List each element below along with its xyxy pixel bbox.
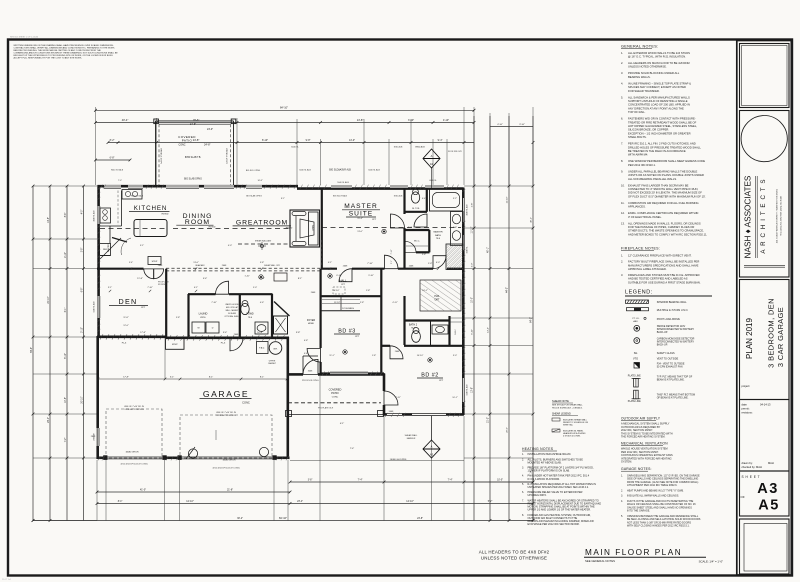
svg-text:3.: 3.: [621, 71, 623, 75]
plb opt hatched area: [420, 280, 461, 311]
svg-text:WITH SELF CLOSING HINGES PER 2: WITH SELF CLOSING HINGES PER 2012 IRC R3…: [627, 525, 690, 528]
svg-text:40′-4″: 40′-4″: [122, 118, 129, 122]
garage bottom wall with door openings: [97, 456, 106, 459]
svg-text:UNLESS NOTED OTHERWISE: UNLESS NOTED OTHERWISE: [481, 556, 547, 561]
svg-text:5040 SL ALB: 5040 SL ALB: [466, 384, 469, 396]
garage bottom extension line right: [290, 460, 464, 462]
svg-text:6′-0″: 6′-0″: [436, 262, 440, 264]
garage slope arrows: [215, 430, 217, 440]
svg-text:84′-10″: 84′-10″: [280, 106, 288, 110]
exterior wall garage left: [96, 336, 99, 459]
svg-text:11′-8″: 11′-8″: [137, 278, 143, 280]
svg-text:20′-10″: 20′-10″: [48, 296, 50, 303]
svg-text:TILE: TILE: [436, 238, 441, 240]
svg-text:HDWD: HDWD: [286, 227, 293, 229]
svg-text:CONC: CONC: [242, 400, 250, 404]
svg-text:revisions:: revisions:: [742, 411, 753, 415]
entertainment center greatroom-master: [290, 210, 320, 247]
svg-text:WASTE HOUSE: WASTE HOUSE: [225, 303, 239, 306]
svg-text:A: A: [431, 154, 433, 158]
bd2 bottom wall: [383, 413, 464, 416]
svg-text:7′-4″: 7′-4″: [350, 448, 355, 450]
svg-text:34 IN ABV: 34 IN ABV: [228, 312, 237, 315]
svg-text:24′-8″: 24′-8″: [417, 518, 423, 520]
svg-text:STEP: STEP: [172, 344, 178, 346]
svg-text:2868 DR: 2868 DR: [94, 433, 96, 441]
svg-text:7′-10″: 7′-10″: [367, 263, 373, 265]
svg-text:CONC: CONC: [332, 396, 339, 398]
hall bath2 wall: [403, 296, 405, 345]
svg-text:1′-0″: 1′-0″: [428, 263, 433, 265]
garage vertical extension lines: [164, 338, 166, 379]
linen closet walls: [448, 316, 450, 346]
svg-text:2′-8″: 2′-8″: [453, 227, 457, 229]
greatroom media dashes: [100, 228, 166, 230]
bd2 bottom door gap: [387, 413, 402, 416]
svg-text:ALL NON-BEARING PARALLEL WALLS: ALL NON-BEARING PARALLEL WALLS.: [628, 177, 677, 181]
bd2 left wall: [383, 374, 386, 392]
svg-text:4X12 4X12 DF#2 (16′-8″ LONG): 4X12 4X12 DF#2 (16′-8″ LONG): [121, 464, 148, 466]
svg-text:5040 SL ALB: 5040 SL ALB: [368, 169, 380, 172]
svg-text:11′-1″: 11′-1″: [329, 355, 334, 357]
svg-text:2x6 DF STUD ALB: 2x6 DF STUD ALB: [226, 147, 229, 163]
svg-text:MULTIPLE 2x STUDS U.N.O.: MULTIPLE 2x STUDS U.N.O.: [657, 309, 689, 312]
svg-text:6′-8″: 6′-8″: [110, 156, 115, 159]
legend bearing wall symbol: [626, 300, 649, 303]
svg-text:LINE OF 7′x16′ DR. IN: LINE OF 7′x16′ DR. IN: [124, 406, 145, 408]
svg-text:INSTALLATION PER ASHRAE 90A-80: INSTALLATION PER ASHRAE 90A-80.: [528, 453, 572, 456]
svg-text:SILICON BRONZE, OR COPPER.: SILICON BRONZE, OR COPPER.: [628, 128, 669, 132]
legend smoke detector: [634, 325, 640, 331]
title block logo box: [740, 111, 790, 278]
windows right wall: [462, 198, 465, 222]
svg-text:PLATE LINE: PLATE LINE: [628, 374, 641, 377]
exterior wall left: [97, 185, 100, 338]
svg-text:IN-LINE FRAMING – SINGLE TOP P: IN-LINE FRAMING – SINGLE TOP PLATE STRAP…: [628, 81, 691, 85]
svg-text:VTO: VTO: [633, 357, 638, 360]
svg-text:14′-0″: 14′-0″: [349, 139, 355, 142]
master shower tile hatch: [446, 244, 463, 270]
svg-text:drawn by:: drawn by:: [742, 461, 754, 465]
legend fan flag: [634, 363, 640, 369]
svg-text:PLATE LINE: PLATE LINE: [628, 400, 641, 403]
svg-text:3′-10″: 3′-10″: [519, 124, 525, 126]
svg-text:MAIN FLOOR PLAN: MAIN FLOOR PLAN: [585, 548, 682, 557]
svg-text:04-14-13: 04-14-13: [760, 403, 771, 407]
svg-text:SYSTEM.: SYSTEM.: [621, 461, 632, 464]
wall hatch marks garage top wall: [168, 335, 171, 340]
svg-text:MOUNTED 48″ ABOVE SLAB.: MOUNTED 48″ ABOVE SLAB.: [528, 461, 562, 464]
svg-text:4 STUDS 4 DOWN.: 4 STUDS 4 DOWN.: [563, 436, 581, 438]
svg-text:8.: 8.: [621, 159, 623, 163]
svg-text:W.H.: W.H.: [273, 348, 278, 350]
svg-text:4′-4″: 4′-4″: [304, 353, 308, 355]
bd3 closet: [321, 295, 381, 297]
svg-text:12′-0″: 12′-0″: [123, 325, 129, 327]
svg-text:4′-0″: 4′-0″: [81, 210, 83, 215]
svg-text:A3: A3: [430, 162, 434, 166]
svg-text:5′-4″: 5′-4″: [129, 262, 133, 264]
double rule between names: [755, 176, 757, 258]
shear dash above foyer wall: [320, 240, 322, 267]
svg-text:9′-8″: 9′-8″: [306, 139, 311, 142]
svg-text:SHEET A5.: SHEET A5.: [563, 424, 574, 427]
svg-text:ALL HEADERS TO BE 4X8 DF#2: ALL HEADERS TO BE 4X8 DF#2: [479, 550, 550, 555]
svg-text:4′-6″: 4′-6″: [260, 302, 264, 304]
svg-text:6′-8″: 6′-8″: [304, 340, 308, 342]
wall den-garage: [97, 335, 166, 338]
bottom wall hatch ticks bd3 bd2: [322, 371, 325, 375]
svg-text:23′-4″: 23′-4″: [297, 501, 303, 503]
svg-text:7′-4″: 7′-4″: [358, 478, 363, 481]
svg-text:UPC REG 608.5.: UPC REG 608.5.: [528, 494, 547, 497]
svg-text:8′-2″: 8′-2″: [110, 139, 115, 142]
svg-text:10′-8″: 10′-8″: [65, 397, 67, 403]
svg-text:11′-10″: 11′-10″: [472, 226, 474, 233]
svg-text:10′-10″: 10′-10″: [417, 355, 424, 357]
svg-text:HEATING NOTES: HEATING NOTES: [522, 447, 554, 451]
svg-text:A3: A3: [430, 453, 434, 457]
right dimension chain lines: [473, 116, 475, 521]
master toilet room: [405, 211, 428, 213]
svg-text:OF FLEX DUCT IS 5″ DIAMETER WI: OF FLEX DUCT IS 5″ DIAMETER WITH MAXIMUM…: [628, 194, 706, 198]
svg-text:FR DRS: FR DRS: [158, 284, 166, 286]
svg-text:F1-6: F1-6: [122, 343, 127, 345]
svg-text:3.: 3.: [522, 466, 524, 469]
svg-text:10′-1″: 10′-1″: [452, 397, 458, 399]
svg-text:FACTORY BUILT FIREPLACE SHALL: FACTORY BUILT FIREPLACE SHALL BE INSTALL…: [628, 260, 699, 264]
svg-text:LEGEND:: LEGEND:: [625, 290, 653, 296]
svg-text:8′-0″: 8′-0″: [408, 227, 412, 229]
exterior wall right: [462, 188, 465, 416]
svg-text:2′-8″: 2′-8″: [360, 302, 364, 304]
svg-text:BEAM ABV: BEAM ABV: [195, 264, 205, 267]
svg-text:MAH: MAH: [768, 461, 774, 465]
svg-text:24′-0″: 24′-0″: [48, 417, 50, 423]
top right short chain: [490, 126, 533, 128]
svg-text:THE FORCED AIR HEATING SYSTEM.: THE FORCED AIR HEATING SYSTEM.: [621, 436, 666, 439]
wall garage top / laundry bottom: [166, 336, 289, 339]
svg-text:APPROVAL LABEL ATTACHED.: APPROVAL LABEL ATTACHED.: [628, 267, 667, 271]
svg-text:SUITE: SUITE: [349, 210, 373, 217]
svg-text:SHEAR WALL: SHEAR WALL: [405, 434, 419, 437]
svg-text:INDICATES SHEAR WALL: INDICATES SHEAR WALL: [563, 419, 588, 422]
svg-text:9′-4″: 9′-4″: [438, 139, 443, 142]
svg-text:4040 SL ALB: 4040 SL ALB: [466, 204, 469, 216]
svg-text:HDWD: HDWD: [209, 226, 216, 228]
svg-text:13′-0″: 13′-0″: [193, 262, 199, 264]
svg-text:SHEAR NOTE: SHEAR NOTE: [552, 399, 569, 403]
windows top wall: [104, 185, 121, 188]
svg-text:F.A.U.: F.A.U.: [259, 347, 265, 350]
svg-text:6′-1″: 6′-1″: [194, 287, 198, 289]
svg-text:CONNECTED TO 4″ SMOOTH WALL VE: CONNECTED TO 4″ SMOOTH WALL VENT PIPE IF…: [628, 187, 698, 191]
svg-text:MASTER: MASTER: [433, 231, 443, 234]
svg-text:ONE WINDOW PER BEDROOM SHALL M: ONE WINDOW PER BEDROOM SHALL MEET EGRESS…: [628, 159, 705, 163]
svg-text:8′-4″: 8′-4″: [118, 501, 123, 503]
svg-text:1′-8″: 1′-8″: [366, 290, 371, 292]
svg-text:GREATROOM: GREATROOM: [236, 219, 288, 226]
svg-text:7′-0″: 7′-0″: [118, 180, 122, 182]
powder bath fixtures: [241, 303, 249, 314]
garage symbols: [188, 449, 197, 458]
garage door dashed boxes: [106, 409, 162, 458]
svg-text:ABV.: ABV.: [633, 320, 638, 323]
svg-text:3′-1″: 3′-1″: [170, 376, 175, 378]
garage wall hatch ticks bottom: [98, 456, 101, 460]
svg-text:6′-8″: 6′-8″: [81, 288, 83, 293]
svg-text:10′-1″: 10′-1″: [422, 290, 428, 292]
svg-text:ALL EXTERIOR WOOD WALLS TO BE: ALL EXTERIOR WOOD WALLS TO BE 2x6 STUDS: [628, 51, 690, 55]
svg-text:13′-4″: 13′-4″: [488, 327, 490, 333]
post bottom patio: [286, 411, 292, 417]
svg-text:2.: 2.: [621, 489, 623, 492]
svg-text:FOR SHEAR TRANSFER.: FOR SHEAR TRANSFER.: [628, 89, 660, 93]
mud angled wall: [274, 302, 290, 317]
legend plate line 2: [634, 390, 639, 399]
svg-text:2′-8″: 2′-8″: [472, 203, 474, 208]
svg-text:INSULATE ALL WARM WALLS AND CE: INSULATE ALL WARM WALLS AND CEILINGS.: [627, 495, 679, 498]
svg-text:4′-11″: 4′-11″: [392, 302, 397, 304]
svg-text:3.: 3.: [621, 273, 623, 277]
shear wall dash greatroom: [238, 243, 290, 245]
kitchen counter left column: [109, 226, 111, 243]
svg-text:COMBUSTION AIR REQUIRED FOR AL: COMBUSTION AIR REQUIRED FOR ALL FUEL BUR…: [628, 201, 699, 205]
patio bottom dash lines: [288, 402, 381, 404]
section marker diamond bottom: [423, 440, 440, 458]
right chain ticks more: [473, 227, 476, 230]
svg-text:ANY DIRECTION AT ANY POINT ALO: ANY DIRECTION AT ANY POINT ALONG THE: [628, 106, 684, 110]
svg-text:5.: 5.: [522, 483, 524, 486]
svg-text:A R C H I T E C T S: A R C H I T E C T S: [760, 178, 767, 253]
foyer niche lines: [303, 355, 318, 357]
svg-text:1′-10″: 1′-10″: [244, 276, 249, 278]
svg-text:CPT: CPT: [372, 219, 377, 221]
svg-text:BIG SLAB OPNG: BIG SLAB OPNG: [184, 178, 202, 181]
svg-text:10.: 10.: [621, 183, 625, 187]
svg-text:9.: 9.: [621, 169, 623, 173]
bath2 top wall: [405, 319, 450, 321]
svg-text:date:: date:: [742, 403, 748, 407]
svg-text:IF ON A WOOD PLATFORM.: IF ON A WOOD PLATFORM.: [528, 478, 561, 481]
svg-text:7′-2″: 7′-2″: [65, 438, 67, 443]
svg-text:SUPPORT LINTHOLD OF RESISTING: SUPPORT LINTHOLD OF RESISTING A SINGLE: [628, 99, 688, 103]
svg-text:4′-10″: 4′-10″: [443, 119, 449, 122]
open beam double dash corridor: [166, 267, 320, 269]
svg-text:SHELF: SHELF: [455, 328, 457, 335]
svg-text:JOISTS OR AS NOTED ON PLANS. D: JOISTS OR AS NOTED ON PLANS. DOUBLE JOIS…: [628, 173, 704, 177]
svg-text:F1-6: F1-6: [221, 343, 226, 345]
svg-text:PROVIDE SOLID BLOCKING UNDER A: PROVIDE SOLID BLOCKING UNDER ALL: [628, 71, 680, 75]
svg-text:M. TOIL: M. TOIL: [412, 208, 420, 210]
garage step box: [166, 338, 185, 350]
bd3 bottom wall: [320, 372, 384, 374]
svg-text:SAFETY GLASS: SAFETY GLASS: [657, 352, 675, 355]
wall hatch marks den-garage wall: [100, 334, 103, 339]
svg-text:SHEAR WALL OPR: SHEAR WALL OPR: [264, 264, 281, 267]
svg-text:1.: 1.: [621, 254, 623, 258]
svg-text:SEE SHT A5 FOR SHEAR WALL: SEE SHT A5 FOR SHEAR WALL: [552, 404, 584, 407]
svg-text:3′-1″: 3′-1″: [108, 287, 112, 289]
svg-text:13.: 13.: [621, 221, 625, 225]
svg-text:INTERIOR BEARING WALL: INTERIOR BEARING WALL: [657, 301, 688, 304]
svg-text:10′ BI-PASS: 10′ BI-PASS: [342, 307, 354, 310]
svg-text:FIREPLACES AND STOVES MUST BE: FIREPLACES AND STOVES MUST BE D.O.E. APP…: [628, 273, 700, 277]
svg-text:3 BEDROOM, DEN: 3 BEDROOM, DEN: [767, 298, 776, 368]
svg-text:4′-0″: 4′-0″: [228, 245, 232, 247]
svg-text:13′-8″: 13′-8″: [472, 387, 474, 393]
svg-text:16080 OH DR: 16080 OH DR: [125, 452, 139, 454]
svg-text:5040 SL ALB: 5040 SL ALB: [299, 169, 311, 172]
svg-text:30′-2″: 30′-2″: [237, 518, 243, 520]
svg-text:BE TREATED IN THE FIELD IN ACC: BE TREATED IN THE FIELD IN ACCORDANCE: [628, 149, 686, 153]
svg-text:8050 SLAB T.B.: 8050 SLAB T.B.: [185, 156, 202, 159]
garage left wall opening: [96, 428, 99, 446]
svg-text:16′-8″: 16′-8″: [257, 180, 262, 182]
svg-text:BIG SLD&#39;R ALB: BIG SLD&#39;R ALB: [329, 169, 351, 172]
svg-text:14′-10″: 14′-10″: [406, 500, 414, 503]
svg-text:3′-0″: 3′-0″: [453, 355, 457, 357]
bottom dimension chain lines: [97, 491, 290, 493]
svg-text:4.: 4.: [522, 475, 524, 478]
svg-text:3 CAR GARAGE: 3 CAR GARAGE: [776, 307, 785, 367]
svg-text:BD #2: BD #2: [421, 372, 438, 378]
bath2 fixtures: [412, 331, 421, 343]
svg-text:16′-8″: 16′-8″: [259, 278, 265, 280]
svg-text:HOLDS SCHEDULE + DETAILS.: HOLDS SCHEDULE + DETAILS.: [552, 406, 583, 409]
window bd2 bottom: [412, 413, 446, 416]
section marker diamond top: [423, 149, 440, 168]
svg-text:UPRIGHT POSITION: UPRIGHT POSITION: [124, 409, 144, 411]
svg-text:7.: 7.: [522, 499, 524, 502]
svg-text:HOT DIPPED GALVANIZED STEEL, S: HOT DIPPED GALVANIZED STEEL, STAINLESS S…: [628, 124, 697, 128]
svg-text:KITCHEN: KITCHEN: [134, 205, 167, 212]
svg-text:40′-1″: 40′-1″: [531, 217, 533, 223]
svg-text:17′-8″: 17′-8″: [123, 376, 129, 378]
exterior wall hatch ticks top: [100, 185, 103, 189]
svg-text:PER 2012 IRC R310.1.: PER 2012 IRC R310.1.: [628, 163, 656, 167]
svg-text:A5: A5: [758, 498, 780, 514]
svg-text:8′-1″: 8′-1″: [260, 376, 265, 378]
svg-text:1 LAYER IF PLATFORM IS ON SLAB: 1 LAYER IF PLATFORM IS ON SLAB.: [528, 470, 571, 473]
svg-text:CPT: CPT: [355, 336, 360, 338]
svg-text:8′-1″: 8′-1″: [209, 376, 214, 378]
svg-text:3′-0″: 3′-0″: [472, 263, 474, 268]
mud closet: [274, 316, 288, 334]
svg-text:4′-1″: 4′-1″: [328, 262, 332, 264]
svg-text:BACK-UP.: BACK-UP.: [657, 331, 668, 334]
svg-text:9′-10″: 9′-10″: [368, 275, 374, 277]
laundry fixtures: [192, 322, 205, 333]
svg-text:4.: 4.: [621, 500, 623, 503]
svg-text:8′-4″: 8′-4″: [65, 213, 67, 218]
svg-text:7′-10″: 7′-10″: [211, 302, 217, 304]
svg-text:11′-10″: 11′-10″: [507, 196, 509, 203]
svg-text:4′-10″: 4′-10″: [497, 124, 503, 126]
svg-text:project:: project:: [742, 384, 751, 388]
svg-text:OPEN: OPEN: [313, 225, 315, 231]
step box: [148, 257, 161, 265]
svg-text:BEAM IS AT PLATE LINE.: BEAM IS AT PLATE LINE.: [657, 379, 685, 382]
laundry bath block walls: [188, 293, 216, 295]
svg-text:7.: 7.: [621, 142, 623, 146]
window bd3 bottom: [330, 372, 368, 375]
svg-text:BIG SLAB OPNG: BIG SLAB OPNG: [246, 195, 262, 198]
svg-text:3′-4″: 3′-4″: [223, 332, 228, 334]
svg-text:10′-0″: 10′-0″: [497, 479, 503, 481]
den french doors pair arcs: [144, 269, 154, 279]
svg-text:AND BE TESTED CERTIFIED AND LA: AND BE TESTED CERTIFIED AND LABELED AS: [628, 277, 688, 281]
svg-text:7′-10″: 7′-10″: [391, 249, 393, 254]
svg-text:41′-0″: 41′-0″: [140, 488, 146, 491]
svg-text:SGD ALB: SGD ALB: [394, 195, 403, 198]
svg-text:21′-2″: 21′-2″: [488, 417, 490, 423]
svg-text:14′-8″: 14′-8″: [357, 118, 364, 122]
svg-text:3′-8″: 3′-8″: [308, 479, 313, 481]
svg-text:24′-8″: 24′-8″: [204, 143, 210, 146]
svg-text:4040 SL: 4040 SL: [429, 180, 437, 182]
south wall foyer segment: [287, 373, 303, 376]
svg-text:2.: 2.: [522, 458, 524, 461]
den right wall: [165, 269, 167, 337]
svg-text:16′-8″: 16′-8″: [257, 332, 263, 334]
svg-text:TOP OF RAIL.: TOP OF RAIL.: [628, 110, 646, 114]
svg-text:6040 SL: 6040 SL: [291, 147, 299, 149]
svg-text:PER IRC 310.1, ALL FIN. 2 FND: PER IRC 310.1, ALL FIN. 2 FND CUTS NOTCH…: [628, 142, 696, 146]
svg-text:BATH: BATH: [435, 234, 441, 237]
svg-text:PRJ ROOF OPNG: PRJ ROOF OPNG: [302, 380, 319, 382]
svg-text:STEEL BOLTS.: STEEL BOLTS.: [628, 135, 647, 139]
master south wall: [321, 268, 337, 270]
master wic bottom left: [405, 229, 430, 231]
svg-text:20′-0″: 20′-0″: [507, 427, 509, 433]
svg-text:17′-8″: 17′-8″: [140, 332, 146, 334]
kitchen counters: [121, 191, 123, 227]
svg-text:PLAN 2019: PLAN 2019: [745, 317, 754, 358]
kitchen island: [134, 220, 167, 237]
svg-text:BIG SLD OPNG: BIG SLD OPNG: [246, 170, 261, 172]
svg-text:UPPER: UPPER: [269, 361, 276, 363]
svg-text:7′-10″: 7′-10″: [147, 287, 153, 289]
title block info box: [740, 400, 790, 472]
svg-text:SPLICES MAY CONNECT, EXCEPT AS: SPLICES MAY CONNECT, EXCEPT AS NOTED: [628, 85, 686, 89]
svg-text:3′-10″: 3′-10″: [408, 119, 414, 122]
garage-house door arc: [230, 338, 243, 351]
wh fau closet: [257, 342, 269, 354]
svg-text:9′-1″: 9′-1″: [140, 245, 144, 247]
svg-text:EXCEPTION – 1/2 INCH DIAMETER: EXCEPTION – 1/2 INCH DIAMETER OR GREATER: [628, 131, 691, 135]
svg-text:ACCEPT FULL RESPONSIBILITY FOR: ACCEPT FULL RESPONSIBILITY FOR THE COST …: [14, 57, 83, 60]
svg-text:OPT: OPT: [435, 299, 440, 302]
svg-text:CPT: CPT: [439, 380, 444, 382]
svg-text:SG: SG: [634, 352, 638, 355]
svg-text:3′-8″: 3′-8″: [81, 248, 83, 253]
svg-text:11′-8″: 11′-8″: [123, 317, 128, 319]
svg-text:TILE: TILE: [248, 317, 253, 319]
svg-text:15′-4″: 15′-4″: [357, 218, 363, 220]
svg-text:6′-1″: 6′-1″: [65, 308, 67, 313]
fridge: [100, 244, 111, 256]
svg-text:6′-10″: 6′-10″: [472, 329, 474, 335]
svg-text:UNDER ALL PARALLEL BEARING WAL: UNDER ALL PARALLEL BEARING WALLS THE DOU…: [628, 169, 698, 173]
svg-text:SEE GENERAL NOTES: SEE GENERAL NOTES: [585, 559, 615, 563]
attic access dashed rect hall: [333, 287, 345, 294]
patio bottom right post: [378, 411, 384, 417]
svg-text:CONC: CONC: [178, 144, 185, 147]
svg-text:1.: 1.: [621, 475, 623, 478]
mud bench: [274, 273, 287, 281]
svg-text:12′-10″: 12′-10″: [186, 500, 194, 503]
